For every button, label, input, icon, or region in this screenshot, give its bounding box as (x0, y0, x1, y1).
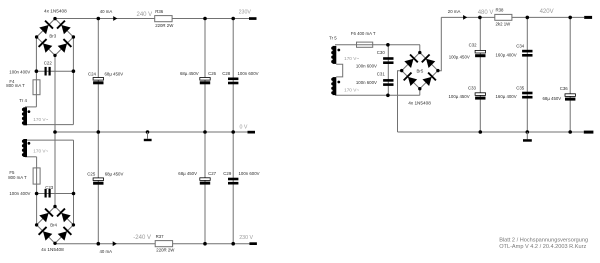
svg-text:220R 2W: 220R 2W (156, 248, 175, 253)
svg-text:C22: C22 (44, 61, 53, 66)
svg-text:100n 400V: 100n 400V (9, 69, 30, 74)
svg-text:C28: C28 (222, 71, 231, 76)
svg-text:C24: C24 (88, 71, 97, 76)
svg-text:C34: C34 (516, 44, 525, 49)
svg-text:800 mA T: 800 mA T (8, 175, 27, 180)
svg-text:R36: R36 (155, 9, 164, 14)
svg-text:230 V: 230 V (239, 235, 253, 241)
svg-text:C33: C33 (468, 85, 477, 90)
svg-text:Tr 5: Tr 5 (329, 36, 337, 41)
svg-text:220R 2W: 220R 2W (155, 23, 174, 28)
svg-text:0 V: 0 V (240, 125, 248, 131)
svg-text:170 V~: 170 V~ (344, 56, 359, 61)
svg-text:230V: 230V (239, 10, 252, 16)
svg-text:100µ 450V: 100µ 450V (449, 54, 470, 59)
svg-text:Tr 4: Tr 4 (19, 98, 27, 103)
svg-text:Br4: Br4 (50, 223, 57, 228)
svg-text:240 V: 240 V (137, 12, 153, 18)
svg-text:4x 1N5408: 4x 1N5408 (41, 247, 64, 252)
svg-text:170 V~: 170 V~ (344, 88, 359, 93)
svg-text:68µ 450V: 68µ 450V (543, 96, 562, 101)
svg-text:170 V~: 170 V~ (33, 117, 48, 122)
svg-text:C30: C30 (377, 50, 386, 55)
svg-text:C27: C27 (208, 171, 217, 176)
svg-text:R38: R38 (496, 8, 505, 13)
svg-text:C29: C29 (223, 171, 232, 176)
svg-text:100n 600V: 100n 600V (356, 80, 377, 85)
svg-text:40 mA: 40 mA (100, 9, 113, 14)
svg-text:C25: C25 (87, 171, 96, 176)
svg-text:20 mA: 20 mA (448, 9, 461, 14)
svg-text:R37: R37 (156, 234, 165, 239)
svg-text:68µ 450V: 68µ 450V (178, 171, 197, 176)
svg-text:2k2 1W: 2k2 1W (496, 22, 512, 27)
svg-text:420V: 420V (540, 9, 554, 15)
svg-text:100n 600V: 100n 600V (239, 171, 260, 176)
svg-text:100n 600V: 100n 600V (238, 71, 259, 76)
svg-text:4x 1N5408: 4x 1N5408 (408, 100, 431, 105)
svg-text:100n 600V: 100n 600V (356, 64, 377, 69)
svg-text:68µ 450V: 68µ 450V (105, 71, 124, 76)
svg-text:C35: C35 (516, 85, 525, 90)
svg-text:68µ 450V: 68µ 450V (180, 71, 199, 76)
svg-text:Br3: Br3 (49, 34, 56, 39)
svg-text:C31: C31 (377, 72, 386, 77)
svg-text:100n 400V: 100n 400V (9, 191, 30, 196)
svg-text:4x 1N5408: 4x 1N5408 (44, 8, 67, 13)
svg-text:Br5: Br5 (417, 68, 424, 73)
svg-text:160µ 400V: 160µ 400V (496, 52, 517, 57)
svg-text:F6 400 mA T: F6 400 mA T (351, 31, 376, 36)
svg-text:800 mA T: 800 mA T (6, 83, 25, 88)
svg-text:OTL-Amp V 4.2 / 20.4.2003 R.Ku: OTL-Amp V 4.2 / 20.4.2003 R.Kurz (499, 244, 586, 250)
svg-text:170 V~: 170 V~ (33, 149, 48, 154)
svg-text:C32: C32 (469, 43, 478, 48)
svg-text:40 mA: 40 mA (100, 249, 113, 254)
svg-text:Blatt 2 / Hochspannungsversorg: Blatt 2 / Hochspannungsversorgung (499, 237, 588, 243)
svg-text:C36: C36 (560, 86, 569, 91)
svg-text:68µ 450V: 68µ 450V (105, 171, 124, 176)
svg-text:160µ 400V: 160µ 400V (496, 94, 517, 99)
svg-text:-240 V: -240 V (133, 235, 151, 241)
svg-text:C23: C23 (45, 185, 54, 190)
svg-text:100µ 450V: 100µ 450V (449, 94, 470, 99)
svg-text:C26: C26 (208, 71, 217, 76)
svg-text:480 V: 480 V (478, 10, 494, 16)
